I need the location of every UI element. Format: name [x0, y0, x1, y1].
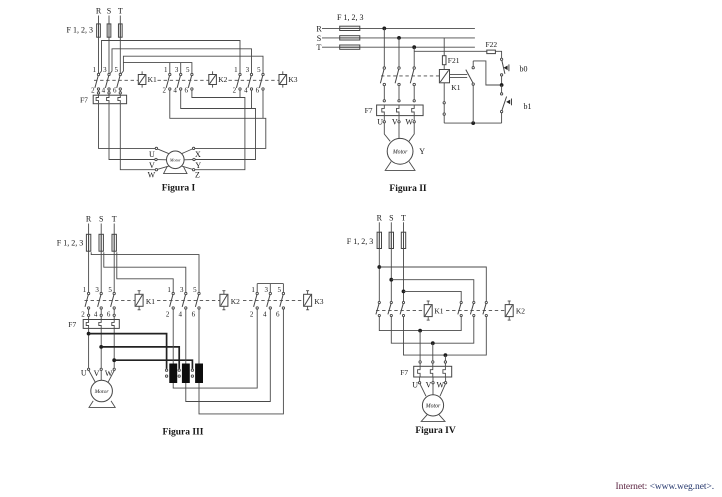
contactor K3 pole 3-4: [248, 73, 253, 90]
F7 input terminals: [419, 361, 447, 363]
overload relay F7 box: [377, 105, 424, 116]
svg-text:R: R: [377, 213, 383, 222]
linkage dashed K1-K2: [446, 310, 505, 312]
contactor K1 pole 1: [380, 67, 385, 86]
svg-text:T: T: [401, 213, 406, 222]
wire K1 pin 4 to F7: [108, 90, 110, 94]
linkage dashed K1: [376, 310, 424, 312]
svg-text:1: 1: [93, 66, 97, 74]
wire fuse F2 to K1 pin 3: [100, 234, 102, 292]
contactor K3 pole 1-2: [254, 292, 259, 309]
wire T tap to K2 pin 1: [117, 252, 173, 292]
svg-text:R: R: [96, 7, 102, 16]
wire F7 to V: [398, 116, 400, 121]
autotransformer T1: [169, 364, 177, 384]
wire R to fuse: [88, 224, 90, 235]
contactor K1 pole 1-2: [95, 73, 100, 90]
coil K1: [135, 291, 143, 310]
wire V into motor: [432, 384, 434, 395]
svg-text:6: 6: [185, 87, 189, 95]
svg-text:6: 6: [256, 87, 260, 95]
wire tap W to autotransformer T3 tap: [114, 360, 192, 369]
overload element F7-1: [96, 95, 98, 103]
wire holding contact to node A: [473, 61, 500, 85]
motor M1 spokes: [157, 149, 193, 169]
svg-text:U: U: [81, 369, 87, 378]
contactor K1 pole 3-4: [98, 292, 103, 309]
fuse F3: [340, 45, 360, 49]
svg-text:Figura II: Figura II: [389, 184, 427, 194]
wire into F7: [100, 316, 102, 319]
fuse F3: [118, 24, 122, 37]
wire K2 pin 6 / K3 pin 2 to motor Z: [192, 90, 245, 169]
coil K1: [138, 71, 146, 87]
svg-text:6: 6: [276, 311, 280, 319]
motor M3 (Figura III): [91, 380, 113, 402]
wire fuse F2 to K1 pin 3: [108, 24, 110, 73]
motor M2 base: [385, 162, 415, 171]
overload element F7-3: [443, 367, 446, 377]
svg-text:3: 3: [246, 66, 250, 74]
svg-text:K2: K2: [218, 75, 227, 84]
wire K1 pin 2 to F7: [88, 309, 90, 315]
svg-text:V: V: [149, 161, 155, 170]
wire K1 pin 4 to F7: [100, 309, 102, 315]
svg-text:F7: F7: [365, 106, 373, 115]
overload element F7-3: [118, 95, 120, 103]
wire S to K1 pole 2: [398, 38, 400, 67]
bus S: [322, 37, 475, 39]
motor M4 (Figura IV): [422, 395, 443, 416]
wire S to fuse F21: [443, 38, 445, 56]
svg-text:4: 4: [244, 87, 248, 95]
pushbutton b0 (NC): [500, 58, 508, 76]
fuse F22: [487, 50, 496, 54]
autotransformer T3: [195, 364, 203, 384]
svg-text:F21: F21: [448, 56, 460, 65]
holding contact K1 (NO): [466, 67, 475, 86]
fuse F21: [442, 56, 446, 65]
linkage dashed K1: [94, 79, 138, 81]
autotransformer T3 taps: [191, 369, 193, 377]
wire F7 aux to rail: [443, 115, 445, 123]
wire to K2 pin 3: [180, 63, 182, 74]
wire into F7: [113, 316, 115, 319]
wire T tap to K2 pin 5: [123, 63, 191, 74]
wire T to fuse F3: [119, 16, 121, 24]
junction node A: [500, 83, 504, 87]
fuse F3: [401, 232, 405, 248]
wire K3 pin 4 stub: [251, 90, 253, 108]
wire fuse F2 to K1: [390, 232, 392, 301]
svg-text:K3: K3: [314, 297, 323, 306]
junction R: [382, 27, 386, 31]
wire F7 to motor W: [120, 104, 155, 170]
svg-text:5: 5: [108, 286, 112, 294]
wire fuse F3 to K1 pin 5: [119, 24, 121, 73]
fuse F3: [112, 234, 116, 251]
wire fuse F1 to K1 pin 1: [98, 24, 100, 73]
svg-text:Motor: Motor: [169, 157, 181, 162]
linkage dashed K2-K3: [243, 300, 304, 302]
motor M1 terminals: [155, 147, 195, 171]
motor terminals U V W: [87, 368, 115, 370]
fuse F2: [99, 234, 103, 251]
wire R to fuse F1: [98, 16, 100, 24]
svg-text:2: 2: [166, 311, 170, 319]
coil K2: [505, 301, 513, 320]
autotransformer T2: [182, 364, 190, 384]
svg-text:Figura IV: Figura IV: [415, 426, 456, 436]
F7 aux contact terminal 95: [443, 102, 445, 104]
svg-text:W: W: [105, 369, 113, 378]
svg-text:F 1, 2, 3: F 1, 2, 3: [337, 13, 363, 22]
fuse F1: [340, 26, 360, 30]
contactor K1 pole 2: [395, 67, 400, 86]
linkage dashed K2-K3: [229, 79, 280, 81]
svg-text:3: 3: [95, 286, 99, 294]
motor M4 base: [421, 414, 445, 421]
fuse F1: [97, 24, 101, 37]
svg-text:6: 6: [113, 87, 117, 95]
wire holding contact to rail: [472, 85, 474, 123]
svg-text:Motor: Motor: [392, 149, 408, 155]
svg-text:S: S: [99, 215, 103, 224]
wire R to K2 pole 3: [379, 267, 486, 301]
wire W to motor: [409, 123, 414, 141]
svg-text:4: 4: [263, 311, 267, 319]
svg-text:S: S: [389, 213, 393, 222]
svg-text:Figura III: Figura III: [163, 427, 204, 437]
overload element F7-2: [99, 320, 101, 328]
svg-text:F7: F7: [80, 95, 88, 104]
wire fuse F3 to K1 pin 5: [113, 234, 115, 292]
wire K1/K2 outputs row 1: [379, 317, 461, 331]
svg-text:F7: F7: [400, 368, 408, 377]
contactor K2 pole 3: [483, 301, 488, 316]
wire U to motor: [384, 123, 390, 141]
autotransformer T2 taps: [178, 369, 180, 377]
wire tap U to autotransformer T1 tap: [89, 334, 167, 369]
coil K2: [220, 291, 228, 310]
wire U into motor: [420, 384, 426, 396]
overload element F7-2: [430, 367, 433, 377]
fuse F2: [107, 24, 111, 37]
svg-text:F 1, 2, 3: F 1, 2, 3: [67, 26, 93, 35]
coil K2: [209, 71, 217, 87]
F7 input terminals: [97, 92, 121, 94]
svg-text:K1: K1: [451, 83, 460, 92]
contactor K3 pole 1-2: [236, 73, 241, 90]
svg-text:3: 3: [180, 286, 184, 294]
wire S tap to K3 pin 3: [110, 49, 252, 74]
svg-text:R: R: [86, 215, 92, 224]
fuse F1: [86, 234, 90, 251]
coil K1 terminal cap: [138, 309, 141, 311]
svg-text:b0: b0: [520, 65, 528, 74]
svg-text:S: S: [107, 7, 111, 16]
overload element F7-1: [382, 105, 385, 115]
contactor K1 pole 3: [410, 67, 415, 86]
overload relay F7 box: [83, 320, 119, 329]
wire K2 pin 4 / K3 pin 4 to motor Y: [181, 90, 256, 159]
svg-text:3: 3: [103, 66, 107, 74]
wire T to fuse: [113, 224, 115, 235]
svg-text:W: W: [405, 118, 413, 127]
coil K3: [279, 71, 287, 87]
overload relay F7 box: [93, 95, 126, 104]
svg-text:2: 2: [250, 311, 254, 319]
wire K2 pin 2 to T1: [172, 309, 174, 364]
wire K2 pin 6 to T3: [198, 309, 200, 364]
svg-text:U: U: [149, 150, 155, 159]
wire node A to button b1: [501, 85, 503, 93]
junction V phase tap: [99, 345, 103, 349]
wire S to fuse: [390, 222, 392, 232]
svg-text:Y: Y: [195, 161, 201, 170]
wire fuse F1 to K1 pin 1: [88, 234, 90, 292]
junction R: [377, 265, 381, 269]
linkage dashed K1-K2: [157, 300, 220, 302]
svg-text:K1: K1: [148, 75, 157, 84]
svg-text:V: V: [426, 381, 432, 390]
svg-text:F 1, 2, 3: F 1, 2, 3: [57, 239, 83, 248]
fuse F2: [340, 36, 360, 40]
wire T3 bottom to K3 pin 6: [199, 309, 283, 414]
wire fuse F3 to K1: [403, 232, 405, 301]
wire R to K1 pole 1: [383, 28, 385, 66]
svg-text:K3: K3: [288, 75, 297, 84]
contactor K3 pole 3-4: [267, 292, 272, 309]
wire R tap to K2 pin 5: [91, 252, 199, 292]
svg-text:5: 5: [257, 66, 261, 74]
wire fuse F1 to K1: [378, 232, 380, 301]
junction T: [402, 290, 406, 294]
fuse F1: [377, 232, 381, 248]
wire W into motor: [108, 371, 114, 383]
svg-text:F 1, 2, 3: F 1, 2, 3: [347, 237, 373, 246]
linkage dashed K1: [85, 300, 136, 302]
motor terminals U V W: [383, 121, 415, 123]
wire T to K2 pole 1: [404, 291, 462, 301]
wire S to fuse: [100, 224, 102, 235]
wire F7 to W: [445, 377, 447, 382]
svg-text:4: 4: [94, 311, 98, 319]
contactor K2 pole 1: [458, 301, 463, 316]
wire K1/K2 outputs row 2: [391, 317, 474, 344]
wire F7 to motor V: [100, 328, 102, 368]
contactor K3 pole 5-6: [259, 73, 264, 90]
svg-text:b1: b1: [524, 102, 532, 111]
wire F7 to motor V: [109, 104, 155, 160]
svg-text:Figura I: Figura I: [162, 184, 196, 194]
junction row 2: [431, 341, 435, 345]
rail wire: [444, 122, 501, 124]
svg-text:Z: Z: [195, 170, 200, 179]
junction rail: [471, 121, 475, 125]
wire into F7: [419, 363, 421, 366]
wire row 3 to F7: [444, 355, 446, 361]
contactor K2 pole 1-2: [166, 73, 171, 90]
wire S to K2 pole 2: [391, 280, 474, 302]
wire V to motor: [398, 123, 400, 139]
contactor K3 pole 5-6: [280, 292, 285, 309]
wire F7 to U: [383, 116, 385, 121]
svg-text:1: 1: [234, 66, 238, 74]
wire S to fuse F2: [108, 16, 110, 24]
wire coil K1 to F7 aux: [443, 83, 445, 102]
svg-text:K2: K2: [516, 306, 525, 315]
wire F7 aux: [443, 104, 445, 113]
wire F21 to coil K1: [443, 65, 445, 70]
overload element F7-3: [412, 105, 415, 115]
wire T to fuse: [403, 222, 405, 232]
svg-text:6: 6: [192, 311, 196, 319]
wire F7 to motor U: [99, 104, 156, 149]
F7 aux contact terminal 96: [443, 113, 445, 115]
wire K1 pole3 to F7: [413, 86, 415, 100]
svg-text:F22: F22: [486, 40, 498, 49]
svg-text:T: T: [118, 7, 123, 16]
wire F7 to motor W: [113, 328, 115, 368]
svg-text:1: 1: [167, 286, 171, 294]
junction row 1: [418, 329, 422, 333]
wire R tap to K3 pin 1: [99, 41, 240, 75]
contactor K1 pole 5-6: [111, 292, 116, 309]
overload element F7-1: [418, 367, 421, 377]
wire bar to K3 pin 5: [282, 284, 284, 293]
bus T: [322, 46, 475, 48]
wire K2 pin 2 / K3 pin 6 to motor X: [170, 90, 266, 148]
motor M1 base: [164, 166, 187, 173]
junction U phase tap: [87, 332, 91, 336]
junction T: [412, 45, 416, 49]
wire T2 bottom to K3 pin 4: [186, 309, 270, 402]
overload element F7-2: [107, 95, 109, 103]
coil K1: [439, 70, 449, 83]
svg-text:S: S: [317, 34, 321, 43]
wire W into motor: [440, 384, 445, 396]
contactor K1 pole 3: [400, 301, 405, 316]
svg-text:V: V: [392, 118, 398, 127]
coil K1: [424, 301, 432, 320]
wire into F7: [432, 363, 434, 366]
svg-text:R: R: [316, 24, 322, 33]
svg-text:2: 2: [81, 311, 85, 319]
wire S tap to K2 pin 3: [104, 252, 186, 292]
contactor K2 pole 3-4: [177, 73, 182, 90]
svg-text:Y: Y: [419, 147, 425, 156]
wire K1 pole1 to F7: [383, 86, 385, 100]
motor terminals U V W: [418, 382, 446, 384]
wire b0 to node A: [501, 76, 503, 84]
wire holding contact up: [472, 61, 474, 67]
coil K1 terminal cap: [427, 319, 430, 321]
svg-text:5: 5: [186, 66, 190, 74]
wire R to fuse: [378, 222, 380, 232]
svg-text:U: U: [377, 118, 383, 127]
junction S: [389, 278, 393, 282]
svg-text:4: 4: [173, 87, 177, 95]
autotransformer T1 taps: [165, 369, 167, 377]
svg-text:T: T: [112, 215, 117, 224]
star bridge bar K3: [257, 283, 283, 285]
svg-text:3: 3: [264, 286, 268, 294]
svg-text:K2: K2: [231, 297, 240, 306]
svg-text:2: 2: [233, 87, 237, 95]
wire T1 bottom to K3 pin 2: [173, 309, 257, 388]
wire K1 pin 6 to F7: [119, 90, 121, 94]
svg-text:K1: K1: [146, 297, 155, 306]
svg-text:Motor: Motor: [425, 403, 441, 409]
contactor K1 pole 5-6: [117, 73, 122, 90]
svg-text:5: 5: [278, 286, 282, 294]
svg-text:T: T: [317, 43, 322, 52]
svg-text:1: 1: [164, 66, 168, 74]
wire K3 pin 2 stub: [239, 90, 241, 97]
wire into F7: [444, 363, 446, 366]
bus R: [322, 27, 475, 29]
linkage K1 to holding contact upper: [450, 74, 468, 76]
svg-text:Motor: Motor: [94, 389, 110, 395]
contactor K1 pole 1: [376, 301, 381, 316]
overload element F7-2: [397, 105, 400, 115]
pushbutton b1 (NO): [500, 93, 511, 113]
junction W phase tap: [112, 358, 116, 362]
coil K3: [304, 291, 312, 310]
wire T tap to K3 pin 5: [121, 56, 263, 74]
contactor K1 pole 2: [388, 301, 393, 316]
contactor K1 pole 1-2: [85, 292, 90, 309]
wire row 1 to F7: [419, 331, 421, 361]
coil K2 terminal cap: [222, 309, 225, 311]
wire K3 pin 6 stub: [262, 90, 264, 118]
contactor K1 pole 3-4: [105, 73, 110, 90]
wire tap V to autotransformer T2 tap: [101, 347, 179, 369]
svg-text:6: 6: [107, 311, 111, 319]
F7 input terminals: [87, 314, 115, 316]
svg-text:2: 2: [91, 87, 95, 95]
overload relay F7 box: [414, 366, 452, 377]
wire into F7: [88, 316, 90, 319]
svg-text:1: 1: [251, 286, 255, 294]
contactor K2 pole 3-4: [182, 292, 187, 309]
fuse F2: [389, 232, 393, 248]
motor M2 (Figura II): [387, 138, 413, 164]
junction S: [397, 36, 401, 40]
wire K1 pole2 to F7: [398, 86, 400, 100]
wire row 2 to F7: [432, 343, 434, 361]
svg-text:3: 3: [175, 66, 179, 74]
contactor K2 pole 1-2: [170, 292, 175, 309]
svg-text:4: 4: [102, 87, 106, 95]
wire bar to K3 pin 3: [269, 284, 271, 293]
coil K2 terminal cap: [508, 319, 511, 321]
motor M3 base: [89, 401, 115, 408]
overload element F7-1: [86, 320, 88, 328]
svg-text:5: 5: [193, 286, 197, 294]
junction row 3: [444, 353, 448, 357]
wire F22 to button b0: [495, 51, 501, 58]
coil K3 terminal cap: [306, 309, 309, 311]
wire U into motor: [89, 371, 96, 383]
svg-text:F7: F7: [68, 320, 76, 329]
svg-text:1: 1: [83, 286, 87, 294]
wire K2 pin 4 to T2: [185, 309, 187, 364]
svg-text:Internet: <www.weg.net>.: Internet: <www.weg.net>.: [616, 482, 715, 492]
wire K1 pin 6 to F7: [113, 309, 115, 315]
wire b1 to rail: [501, 113, 503, 123]
